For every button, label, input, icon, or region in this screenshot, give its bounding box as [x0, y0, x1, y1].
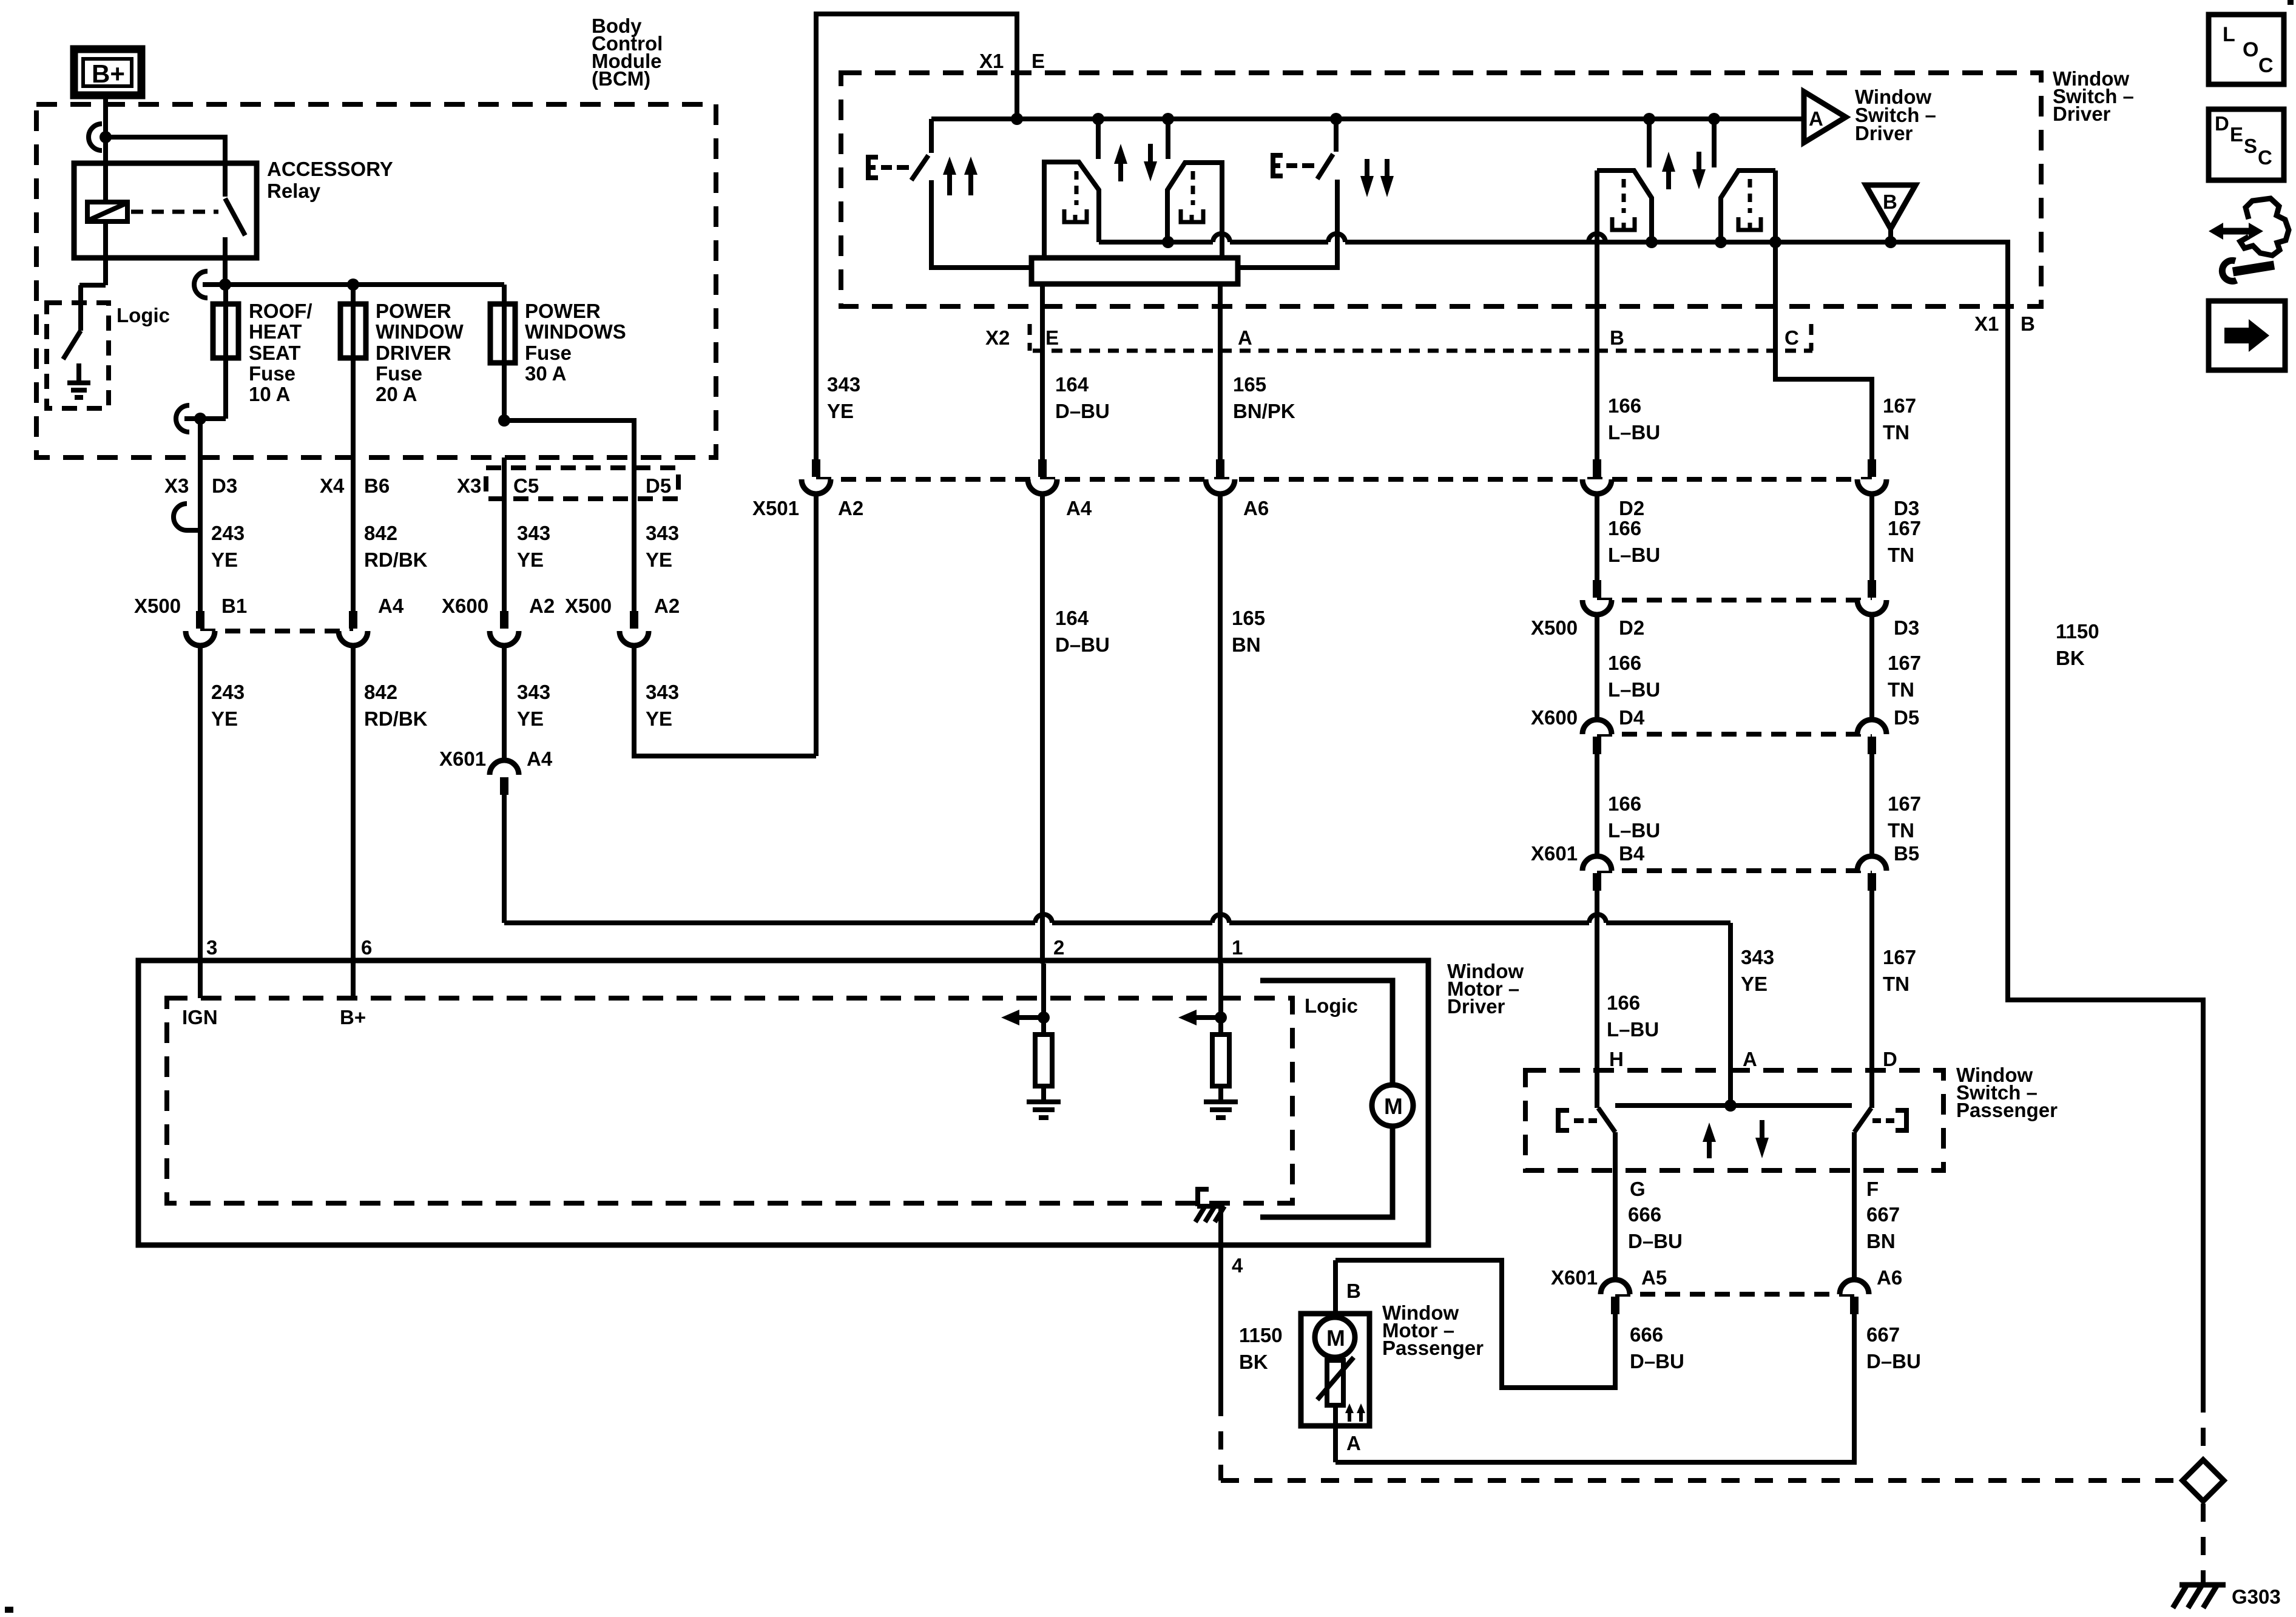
pentagon R pair2 detent dash [1748, 179, 1752, 213]
wire label 667 D-BU lower [1866, 1323, 1921, 1372]
svg-text:G303: G303 [2232, 1585, 2281, 1608]
thermistor [1317, 1357, 1354, 1405]
pentagon R pair1 [1167, 163, 1222, 258]
connector X601 B4 [1582, 856, 1612, 891]
dashed wire to G303 [2201, 1504, 2206, 1582]
svg-text:C5: C5 [513, 474, 539, 497]
wire into fuse 20A [351, 285, 356, 457]
wire 167 to passenger switch D [1869, 891, 1874, 1108]
svg-text:D3: D3 [1894, 616, 1919, 639]
DESC icon box [2209, 109, 2284, 180]
svg-text:D2: D2 [1619, 497, 1644, 519]
svg-text:L–BU: L–BU [1608, 421, 1660, 444]
svg-text:X3: X3 [164, 474, 189, 497]
svg-text:D–BU: D–BU [1866, 1350, 1921, 1372]
jumper hop over wire 166 [1589, 914, 1606, 923]
connector X600 D4 [1582, 720, 1612, 754]
E1 symbol [868, 157, 878, 178]
svg-text:H: H [1609, 1048, 1624, 1070]
junction dot stub 1a [1092, 113, 1104, 125]
window motor passenger title [1382, 1301, 1484, 1359]
earth ground pin 1 [1204, 1102, 1238, 1118]
X500 right row dashed line [1597, 598, 1872, 603]
wire 243 YE inside BCM [198, 419, 203, 457]
svg-text:6: 6 [361, 936, 372, 959]
svg-text:D5: D5 [646, 474, 671, 497]
jumper hop over wire 1 [1212, 914, 1229, 923]
wire label 166 L-BU row5 [1607, 991, 1659, 1041]
wire 166 X600 to X601 [1595, 754, 1599, 856]
svg-text:YE: YE [211, 549, 238, 571]
passenger left bracket [1558, 1110, 1569, 1130]
pentagon R pair1 detent dash [1191, 171, 1195, 205]
passenger switch bar [1615, 1103, 1852, 1108]
wire label 667 BN [1866, 1203, 1900, 1252]
dashed 1150 BK above splice [2201, 1394, 2206, 1457]
svg-text:D5: D5 [1894, 706, 1919, 729]
wire 343 YE to X500 A2 [632, 457, 636, 611]
svg-text:M: M [1326, 1326, 1345, 1351]
passenger blade H-G [1598, 1108, 1615, 1132]
stub 2a [1647, 119, 1652, 167]
motor bracket [1260, 981, 1393, 1217]
svg-text:A6: A6 [1877, 1266, 1902, 1289]
svg-text:C: C [1784, 326, 1799, 349]
wire label 343 YE (C5) [517, 522, 550, 571]
wire label 167 TN row2 [1888, 517, 1921, 566]
wire pin 1 internal [1218, 964, 1223, 1035]
wire label 166 L-BU top [1608, 394, 1660, 444]
junction dot relay-bus [219, 279, 231, 291]
accessory relay box [74, 163, 257, 258]
svg-text:B: B [1883, 191, 1897, 213]
wire into fuse 30A [502, 285, 507, 420]
connector X601 A4 [490, 760, 519, 795]
wire label 167 TN row4 [1888, 792, 1921, 842]
wire label 164 D-BU lower [1055, 607, 1110, 656]
svg-text:A: A [1809, 107, 1823, 130]
resistor pin 2 [1035, 1035, 1052, 1086]
svg-text:343: 343 [517, 522, 550, 544]
svg-text:O: O [2243, 38, 2258, 61]
junction dot pin 2 [1038, 1011, 1050, 1024]
B triangle off-page connector [1866, 185, 1916, 229]
svg-text:A2: A2 [654, 595, 680, 617]
wire 667 BN to X601 A6 [1852, 1132, 1857, 1280]
wire label 343 YE feed [827, 373, 860, 422]
svg-text:D2: D2 [1619, 616, 1644, 639]
svg-text:POWER: POWER [525, 300, 601, 322]
svg-text:1: 1 [1232, 936, 1243, 959]
wire 842 RD/BK to motor pin 6 [351, 646, 356, 964]
wire label 167 TN row3 [1888, 652, 1921, 701]
junction dot pair2 right [1715, 236, 1727, 248]
wire 243 YE to X500 B1 [198, 457, 203, 611]
junction dot X1 E [1011, 113, 1023, 125]
hook at lower junction [176, 405, 189, 432]
window motor driver title [1447, 960, 1524, 1018]
svg-text:Driver: Driver [1447, 995, 1505, 1018]
BCM title [592, 15, 663, 90]
wire 667 D-BU jog to motor A [1335, 1314, 1854, 1462]
svg-text:B6: B6 [364, 474, 390, 497]
motor M passenger [1315, 1317, 1355, 1357]
svg-text:X4: X4 [320, 474, 345, 497]
svg-text:X500: X500 [134, 595, 181, 617]
wire 666 D-BU to X601 A5 [1613, 1132, 1618, 1280]
svg-text:3: 3 [206, 936, 217, 959]
ground G303 [2173, 1585, 2226, 1608]
wire 343 YE to X601 A4 [502, 646, 507, 761]
hook at X3 D3 [174, 504, 200, 530]
bus bar rectangle [1032, 258, 1238, 284]
svg-text:YE: YE [827, 400, 854, 422]
passenger blade D-F [1854, 1108, 1871, 1132]
svg-text:X501: X501 [752, 497, 799, 519]
svg-text:666: 666 [1630, 1323, 1663, 1346]
wire label 165 BN/PK [1233, 373, 1295, 422]
wire 1150 BK from switch driver [2008, 306, 2203, 1394]
svg-text:BN/PK: BN/PK [1233, 400, 1295, 422]
wire label 166 L-BU row4 [1608, 792, 1660, 842]
hook at bus start [194, 271, 208, 298]
wire label 1150 BK lower [1239, 1324, 1283, 1373]
pentagon L pair2 [1597, 170, 1652, 242]
scan artifact dot top right [2288, 0, 2294, 5]
svg-text:L–BU: L–BU [1608, 678, 1660, 701]
svg-text:4: 4 [1232, 1254, 1243, 1277]
svg-text:20 A: 20 A [376, 383, 417, 405]
svg-text:L–BU: L–BU [1608, 819, 1660, 842]
pentagon R pair2 [1721, 170, 1775, 242]
forward arrow icon box [2209, 301, 2285, 370]
connector X501 D2 [1582, 459, 1612, 494]
lower junction bus from fuse 10A [184, 416, 226, 421]
A triangle off-page connector [1804, 92, 1846, 143]
wire label 343 YE lower [517, 681, 550, 730]
wire 166 X500 to X600 [1595, 615, 1599, 720]
svg-text:E: E [1032, 50, 1045, 72]
X501 row dashed line [816, 477, 1872, 482]
svg-text:ACCESSORY: ACCESSORY [267, 158, 393, 180]
wire branch to relay switch [106, 137, 225, 197]
svg-text:D–BU: D–BU [1055, 400, 1110, 422]
motor logic dashed box [167, 998, 1292, 1203]
pentagon L pair1 [1044, 162, 1099, 258]
svg-text:IGN: IGN [182, 1006, 218, 1028]
svg-text:A5: A5 [1641, 1266, 1667, 1289]
wire label 666 D-BU upper [1628, 1203, 1683, 1252]
svg-text:B1: B1 [221, 595, 247, 617]
svg-text:RD/BK: RD/BK [364, 549, 428, 571]
wire label 842 RD/BK lower [364, 681, 428, 730]
dashed ground bus to splice [1221, 1478, 2180, 1483]
fuse 30A label [525, 300, 626, 385]
svg-text:WINDOWS: WINDOWS [525, 320, 626, 343]
svg-text:D: D [2215, 112, 2229, 135]
svg-text:Passenger: Passenger [1956, 1099, 2058, 1121]
svg-text:1150: 1150 [2056, 620, 2099, 643]
svg-text:D3: D3 [212, 474, 237, 497]
wire pin C from pentagon R pair2 [1775, 170, 1872, 459]
wire motor B stub [1333, 1260, 1338, 1318]
wire label 164 D-BU upper [1055, 373, 1110, 422]
jumper hop over wire 2 [1035, 914, 1052, 923]
svg-text:BK: BK [1239, 1351, 1268, 1373]
relay coil return wire to logic [79, 221, 106, 331]
feed loop from X501 A2 to X1 E [816, 14, 1017, 756]
wire label 166 L-BU row3 [1608, 652, 1660, 701]
wire label 167 TN row5 [1883, 946, 1916, 995]
resistor ground stem pin 1 [1218, 1086, 1223, 1099]
junction dot B+ branch [100, 131, 112, 143]
wire label 1150 BK [2056, 620, 2099, 669]
wire 167 X600 to X601 [1869, 754, 1874, 856]
logic ground stem [76, 363, 81, 380]
wire 167 X501 to X500 [1869, 494, 1874, 580]
X2 connector dotted row [1033, 349, 1812, 353]
svg-text:667: 667 [1866, 1323, 1900, 1346]
bus hop over wire 166 [1589, 234, 1606, 242]
wire pin 6 stub [351, 964, 356, 998]
svg-text:D4: D4 [1619, 706, 1645, 729]
svg-text:POWER: POWER [376, 300, 451, 322]
relay coil [87, 202, 127, 221]
svg-text:B+: B+ [340, 1006, 366, 1028]
pentagon R pair2 detent cup [1738, 217, 1761, 230]
left arrow pin 2 [1001, 1010, 1044, 1025]
svg-text:10 A: 10 A [249, 383, 290, 405]
svg-text:BN: BN [1232, 633, 1261, 656]
ACCESSORY Relay label [267, 158, 393, 202]
svg-text:S: S [2244, 135, 2257, 157]
svg-text:X500: X500 [565, 595, 612, 617]
passenger down arrow [1755, 1120, 1769, 1158]
svg-text:Fuse: Fuse [525, 342, 572, 364]
svg-text:D3: D3 [1894, 497, 1919, 519]
svg-text:TN: TN [1888, 544, 1914, 566]
svg-text:C: C [2258, 146, 2272, 169]
up arrow pair2 [1662, 152, 1675, 189]
E2 contact stub [1334, 119, 1339, 152]
wire pin B through box [1595, 170, 1599, 459]
svg-text:167: 167 [1888, 652, 1921, 674]
svg-text:BK: BK [2056, 647, 2085, 669]
adjust icon double arrow [2209, 223, 2263, 240]
svg-text:DRIVER: DRIVER [376, 342, 451, 364]
junction dot fuse 10A output [194, 413, 206, 425]
svg-text:Fuse: Fuse [249, 362, 295, 385]
wires 164/165 from bus bar [1042, 284, 1220, 459]
adjust icon wrench [2222, 260, 2274, 281]
svg-text:A: A [1743, 1048, 1757, 1070]
relay coil-contact dashed link [131, 210, 218, 214]
logic switch blade [63, 331, 81, 359]
connector X601 A6 [1840, 1280, 1869, 1314]
svg-text:TN: TN [1888, 678, 1914, 701]
svg-text:A4: A4 [1066, 497, 1092, 519]
wire label 243 YE lower [211, 681, 245, 730]
svg-text:L: L [2223, 23, 2235, 46]
branch 30A fuse to D5 [504, 420, 634, 457]
relay contact blade [225, 198, 245, 235]
junction dot B triangle [1885, 236, 1897, 248]
svg-text:A: A [1238, 326, 1252, 349]
connector X501 A2 [802, 459, 831, 494]
X3 C5/D5 connector dashed box [486, 468, 678, 499]
svg-text:L–BU: L–BU [1608, 544, 1660, 566]
svg-text:166: 166 [1608, 517, 1641, 539]
E1 contact stub [929, 119, 934, 153]
bus hop over pentagon R pair1 leg [1213, 234, 1230, 242]
logic earth ground [67, 383, 90, 397]
svg-text:167: 167 [1883, 394, 1916, 417]
svg-text:Fuse: Fuse [376, 362, 422, 385]
svg-text:TN: TN [1888, 819, 1914, 842]
svg-text:343: 343 [517, 681, 550, 703]
wire into fuse 10A [223, 285, 228, 419]
passenger right bracket [1896, 1110, 1906, 1130]
svg-text:667: 667 [1866, 1203, 1900, 1226]
down arrows E2 [1360, 159, 1394, 197]
connector X600 A2 [490, 611, 519, 646]
svg-text:SEAT: SEAT [249, 342, 301, 364]
wire label 166 L-BU row2 [1608, 517, 1660, 566]
wire 343 YE jumper to passenger switch A [504, 795, 1730, 1106]
svg-text:167: 167 [1888, 792, 1921, 815]
junction dot pair2 left [1646, 236, 1658, 248]
svg-text:343: 343 [827, 373, 860, 396]
ground splice diamond [2183, 1460, 2224, 1501]
wire 243 YE to motor pin 3 [198, 646, 203, 964]
wire label 165 BN [1232, 607, 1265, 656]
B triangle tail [1888, 229, 1893, 242]
svg-text:Driver: Driver [1855, 122, 1913, 144]
svg-text:WINDOW: WINDOW [376, 320, 464, 343]
svg-text:X600: X600 [1531, 706, 1578, 729]
svg-text:164: 164 [1055, 373, 1089, 396]
svg-text:A: A [1346, 1432, 1361, 1454]
svg-text:B: B [1346, 1280, 1361, 1302]
svg-text:X2: X2 [985, 326, 1010, 349]
E2 blade [1317, 154, 1333, 179]
svg-text:X601: X601 [1531, 842, 1578, 865]
svg-text:842: 842 [364, 681, 397, 703]
junction dot fuse2 tap [347, 279, 359, 291]
POWER WINDOW DRIVER fuse 20A [340, 304, 366, 358]
svg-text:X1: X1 [979, 50, 1004, 72]
connector X601 A5 [1601, 1280, 1630, 1314]
svg-text:165: 165 [1232, 607, 1265, 629]
svg-text:243: 243 [211, 681, 245, 703]
connector X501 D3 [1857, 459, 1886, 494]
svg-text:666: 666 [1628, 1203, 1661, 1226]
lower bus [1099, 242, 2008, 306]
svg-text:C: C [2258, 54, 2274, 77]
junction dot 30A output [498, 414, 510, 427]
E2 symbol [1273, 155, 1283, 176]
svg-text:YE: YE [211, 707, 238, 730]
svg-text:343: 343 [646, 681, 679, 703]
passenger left bracket dashes [1574, 1118, 1597, 1123]
window motor passenger box [1301, 1314, 1369, 1426]
thermistor arrows [1345, 1403, 1365, 1422]
svg-text:B5: B5 [1894, 842, 1919, 865]
fuse 20A label [376, 300, 464, 405]
wire B+ to relay coil [103, 95, 108, 202]
pentagon L pair1 detent dash [1075, 171, 1079, 205]
window switch driver outer title [2053, 67, 2134, 125]
E1 dashes [881, 165, 909, 170]
wire label 167 TN top [1883, 394, 1916, 444]
passenger up arrow [1703, 1122, 1716, 1158]
svg-text:Logic: Logic [116, 304, 170, 326]
svg-text:F: F [1866, 1178, 1879, 1200]
svg-text:(BCM): (BCM) [592, 67, 650, 90]
earth ground pin 2 [1027, 1102, 1061, 1118]
wire 166 X501 to X500 [1595, 494, 1599, 580]
E1 blade [911, 155, 928, 180]
wire label 343 YE (D5) [646, 522, 679, 571]
connector X500 D2 [1582, 580, 1612, 615]
top bus [931, 116, 1804, 121]
fuse 10A label [249, 300, 312, 405]
junction dot stub 2b [1708, 113, 1720, 125]
connector X500 D3 [1857, 580, 1886, 615]
X601 A5/A6 dashed row [1615, 1292, 1854, 1297]
relay output wire [223, 237, 228, 285]
wire 842 RD/BK to X500 A4 [351, 457, 356, 611]
pentagon L pair1 detent cup [1064, 209, 1087, 222]
svg-text:YE: YE [646, 549, 672, 571]
passenger right bracket dashes [1872, 1118, 1894, 1123]
wire 666 D-BU jog to motor B [1335, 1260, 1615, 1388]
svg-text:A6: A6 [1243, 497, 1269, 519]
svg-text:X601: X601 [1551, 1266, 1598, 1289]
scan artifact dot bottom left [5, 1607, 13, 1613]
svg-text:BN: BN [1866, 1230, 1896, 1252]
fuse feed bus [203, 282, 504, 287]
svg-text:X3: X3 [457, 474, 481, 497]
wire label 842 RD/BK [364, 522, 428, 571]
wire thermistor to A pin [1333, 1405, 1338, 1462]
X500 left row dashed line [200, 629, 353, 633]
chassis ground internal [1195, 1189, 1224, 1222]
svg-text:L–BU: L–BU [1607, 1018, 1659, 1041]
svg-text:G: G [1630, 1178, 1646, 1200]
svg-text:Driver: Driver [2053, 103, 2111, 125]
wire 167 X500 to X600 [1869, 615, 1874, 720]
E2 dashes [1286, 163, 1314, 168]
wire pin 2 internal [1041, 964, 1046, 1035]
svg-text:166: 166 [1608, 652, 1641, 674]
svg-text:A4: A4 [378, 595, 404, 617]
junction dot pin 1 [1215, 1011, 1227, 1024]
svg-text:D: D [1883, 1048, 1897, 1070]
wire 164 D-BU to motor pin 2 [1040, 494, 1045, 964]
svg-text:ROOF/: ROOF/ [249, 300, 312, 322]
svg-text:E: E [2230, 123, 2243, 146]
connector X601 B5 [1857, 856, 1886, 891]
Body Control Module dashed box [36, 104, 716, 457]
adjust icon hand outline [2240, 198, 2289, 255]
POWER WINDOWS fuse 30A [490, 304, 515, 363]
connector X501 A6 [1206, 459, 1235, 494]
svg-text:167: 167 [1888, 517, 1921, 539]
junction dot stub 2a [1643, 113, 1655, 125]
svg-text:TN: TN [1883, 421, 1909, 444]
left arrow pin 1 [1178, 1010, 1221, 1025]
